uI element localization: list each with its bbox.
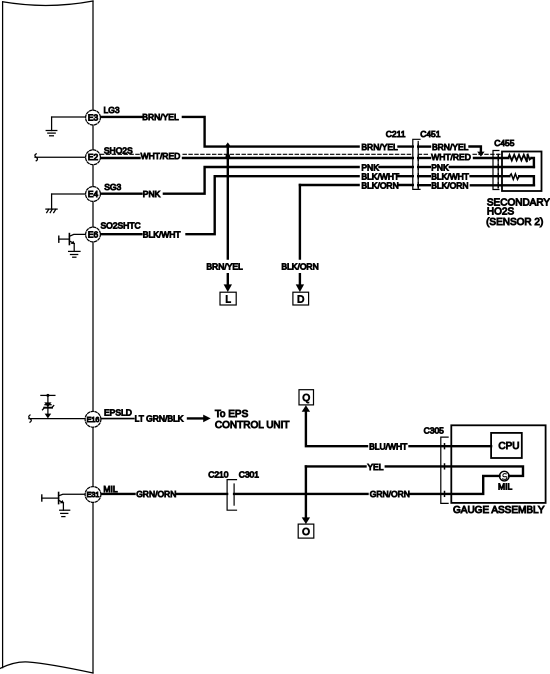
wire YEL into gauge, down to MIL bulb bbox=[386, 466, 523, 476]
zener diode branch at E16 bbox=[41, 395, 55, 414]
pin E16 wire right bbox=[101, 418, 134, 420]
svg-text:D: D bbox=[297, 294, 304, 305]
svg-text:LT GRN/BLK: LT GRN/BLK bbox=[135, 414, 184, 424]
svg-text:PNK: PNK bbox=[143, 189, 161, 199]
wire BLK/WHT to sensor heater bbox=[471, 175, 510, 177]
wire GRN/ORN into gauge to MIL bulb bbox=[410, 476, 500, 494]
connector C210 bracket bbox=[227, 480, 236, 511]
wire BLK/ORN stub right of C451 bbox=[418, 184, 430, 186]
svg-text:CONTROL UNIT: CONTROL UNIT bbox=[215, 420, 290, 431]
svg-text:YEL: YEL bbox=[367, 462, 383, 472]
wire BRN/YEL branch down to terminal L bbox=[227, 147, 229, 259]
wire GRN/ORN label to C210 bbox=[176, 493, 227, 495]
wire BRN/YEL from E3 label to corner bbox=[183, 117, 359, 147]
shield dashed line (main run to C211) bbox=[183, 153, 413, 155]
wire BLK/ORN corner to C211 bbox=[300, 184, 359, 186]
svg-text:C305: C305 bbox=[424, 425, 445, 435]
svg-text:BRN/YEL: BRN/YEL bbox=[361, 142, 398, 152]
svg-text:WHT/RED: WHT/RED bbox=[431, 152, 471, 162]
wire BLK/ORN branch down to terminal D bbox=[299, 185, 301, 259]
pin E6 wire to label bbox=[100, 233, 141, 235]
svg-text:E2: E2 bbox=[88, 152, 99, 162]
junction dot at zener top bar bbox=[46, 394, 49, 397]
svg-text:MIL: MIL bbox=[103, 484, 117, 494]
wire BRN/YEL stub right of C451 bbox=[418, 145, 430, 147]
terminal ticks at C451 bbox=[417, 144, 419, 187]
wire WHT/RED from E2 bbox=[100, 157, 139, 159]
svg-text:E4: E4 bbox=[88, 189, 99, 199]
MIL bulb filament bbox=[503, 474, 507, 480]
sensor element to return (top U) bbox=[531, 158, 534, 167]
arrowhead into terminal D bbox=[296, 284, 304, 292]
svg-text:BLU/WHT: BLU/WHT bbox=[369, 441, 407, 451]
wire YEL from vertical to C305 bbox=[306, 465, 366, 467]
transistor Q (heater driver) at pin E6 bbox=[59, 234, 86, 252]
svg-text:C301: C301 bbox=[239, 469, 260, 479]
svg-text:To EPS: To EPS bbox=[215, 409, 249, 420]
svg-text:SHO2S: SHO2S bbox=[104, 145, 133, 155]
svg-text:C451: C451 bbox=[420, 129, 441, 139]
pin E3 wire to label bbox=[100, 116, 141, 118]
chassis ground at pin E4 bbox=[46, 194, 86, 213]
ground at pin E3 bbox=[46, 117, 85, 136]
arrowhead into terminal O bbox=[302, 517, 310, 524]
wire PNK label to corner up to C211 bbox=[164, 167, 359, 194]
svg-text:Q: Q bbox=[302, 393, 310, 404]
connector C455 bar bbox=[497, 154, 499, 185]
terminal box D bbox=[293, 292, 309, 305]
junction dot on shield line bbox=[226, 154, 231, 159]
ECM/PCM strip torn bottom edge bbox=[0, 662, 93, 673]
emitter arrowhead E6 bbox=[71, 241, 75, 244]
connector C455 bracket bbox=[493, 151, 499, 190]
wire BLK/WHT label to corner up to C211 bbox=[187, 176, 359, 234]
svg-text:C210: C210 bbox=[208, 469, 229, 479]
svg-text:E3: E3 bbox=[88, 113, 99, 123]
wire WHT/RED stub right of C451 bbox=[418, 157, 430, 159]
svg-text:WHT/RED: WHT/RED bbox=[141, 151, 181, 161]
svg-text:C455: C455 bbox=[494, 138, 515, 148]
svg-text:E31: E31 bbox=[87, 490, 100, 499]
arrowhead to EPS bbox=[203, 415, 211, 423]
arrowhead into terminal L bbox=[224, 284, 232, 292]
svg-text:GRN/ORN: GRN/ORN bbox=[370, 489, 410, 499]
svg-text:SO2SHTC: SO2SHTC bbox=[101, 220, 141, 230]
svg-text:GAUGE ASSEMBLY: GAUGE ASSEMBLY bbox=[453, 505, 545, 516]
svg-text:BLK/WHT: BLK/WHT bbox=[143, 230, 181, 240]
pin E4 circle bbox=[86, 187, 101, 202]
pin E6 circle bbox=[86, 227, 101, 242]
pin E31 wire to label bbox=[101, 493, 135, 495]
zener diode triangle bbox=[44, 402, 51, 407]
arrowhead from terminal Q bbox=[302, 405, 310, 411]
svg-text:BLK/ORN: BLK/ORN bbox=[431, 181, 468, 191]
wire PNK label gap to C211 bbox=[380, 166, 413, 168]
connector C305 bracket bbox=[441, 437, 448, 503]
pin E16 wire and break squiggle bbox=[29, 415, 86, 422]
connector C451 bar bbox=[417, 142, 419, 190]
wire BLK/ORN label gap to arrow D bbox=[299, 274, 301, 285]
wire WHT/RED into sensor bbox=[474, 157, 508, 159]
wire BLK/ORN label gap to C211 bbox=[399, 184, 413, 186]
transistor Q (MIL driver) at pin E31 bbox=[42, 493, 86, 511]
svg-text:BRN/YEL: BRN/YEL bbox=[206, 261, 243, 271]
svg-text:(SENSOR 2): (SENSOR 2) bbox=[486, 217, 543, 228]
svg-text:BLK/ORN: BLK/ORN bbox=[281, 261, 318, 271]
emitter arrowhead E31 bbox=[60, 500, 64, 503]
svg-text:BLK/ORN: BLK/ORN bbox=[361, 181, 398, 191]
svg-text:C211: C211 bbox=[386, 129, 406, 139]
pin E3 circle bbox=[86, 110, 101, 125]
pin E31 circle bbox=[85, 487, 101, 503]
wire E2 to shield continuation (break squiggle) bbox=[35, 154, 86, 161]
svg-text:BRN/YEL: BRN/YEL bbox=[142, 112, 179, 122]
wire PNK stub right of C451 bbox=[418, 166, 430, 168]
svg-text:E6: E6 bbox=[88, 229, 99, 239]
SECONDARY HO2S sensor box bbox=[502, 152, 542, 192]
wire BLK/WHT label gap to C211 bbox=[399, 175, 413, 177]
terminal box Q bbox=[299, 390, 314, 405]
wire GRN/ORN from C301 to label bbox=[234, 493, 367, 495]
connector C211 bracket bbox=[413, 139, 420, 189]
arrowhead of zener branch onto EPSLD wire bbox=[45, 414, 52, 419]
terminal ticks at C455 bbox=[497, 156, 499, 188]
wire PNK to sensor bbox=[450, 166, 534, 168]
ECM/PCM strip left edge bbox=[2, 2, 4, 668]
ground at E31 transistor emitter bbox=[60, 510, 70, 516]
terminal ticks at C305 bbox=[444, 444, 446, 497]
heater coil W bbox=[509, 174, 519, 180]
wire BLK/WHT stub right of C451 bbox=[418, 175, 430, 177]
pin E2 circle bbox=[86, 150, 101, 165]
svg-text:E16: E16 bbox=[87, 415, 100, 424]
terminal box O bbox=[298, 524, 314, 538]
sensor element tick bbox=[526, 155, 528, 162]
svg-text:LG3: LG3 bbox=[104, 105, 120, 115]
svg-text:O: O bbox=[302, 527, 310, 538]
MIL bulb bbox=[500, 471, 510, 481]
shield dashed line (E2 segment) bbox=[100, 153, 140, 155]
ground at E6 transistor emitter bbox=[69, 251, 80, 257]
heater to return (bottom U) bbox=[519, 176, 534, 185]
pin E4 wire to label bbox=[101, 192, 142, 194]
sensor element zigzag bbox=[508, 155, 531, 161]
ECM/PCM connector strip torn top edge bbox=[3, 1, 93, 5]
wire BRN/YEL jumper down to shield bbox=[470, 147, 481, 153]
gauge assembly box bbox=[451, 425, 545, 503]
CPU box bbox=[491, 433, 522, 458]
junction arrow up onto BRN/YEL wire bbox=[225, 142, 232, 147]
terminal box L bbox=[220, 292, 236, 305]
wire down to terminal O bbox=[305, 466, 307, 517]
svg-text:MIL: MIL bbox=[498, 482, 512, 492]
shield dashed line to C455/sensor bbox=[473, 153, 502, 155]
svg-text:L: L bbox=[225, 294, 231, 305]
arrow to EPS control unit bbox=[188, 417, 203, 419]
pin E16 circle bbox=[85, 411, 101, 427]
svg-text:SG3: SG3 bbox=[104, 182, 121, 192]
wire BLU/WHT to CPU bbox=[410, 445, 492, 447]
wire BRN/YEL label gap to C211 bbox=[399, 145, 413, 147]
connector C301 bar bbox=[233, 484, 235, 505]
svg-text:GRN/ORN: GRN/ORN bbox=[136, 489, 176, 499]
shield dashed stub right of C451 bbox=[418, 153, 430, 155]
wire BRN/YEL label gap to arrow L bbox=[227, 274, 229, 285]
wire WHT/RED main run to C211 bbox=[183, 157, 413, 159]
svg-text:EPSLD: EPSLD bbox=[104, 407, 132, 417]
svg-text:BRN/YEL: BRN/YEL bbox=[432, 142, 469, 152]
ECM/PCM strip right edge (pin rail) bbox=[92, 1, 94, 673]
svg-text:CPU: CPU bbox=[498, 441, 519, 452]
arrowhead onto shield line bbox=[477, 152, 484, 157]
wire BLK/ORN to sensor heater return bbox=[471, 184, 534, 186]
wire from Q down to BLU/WHT bbox=[306, 412, 367, 447]
